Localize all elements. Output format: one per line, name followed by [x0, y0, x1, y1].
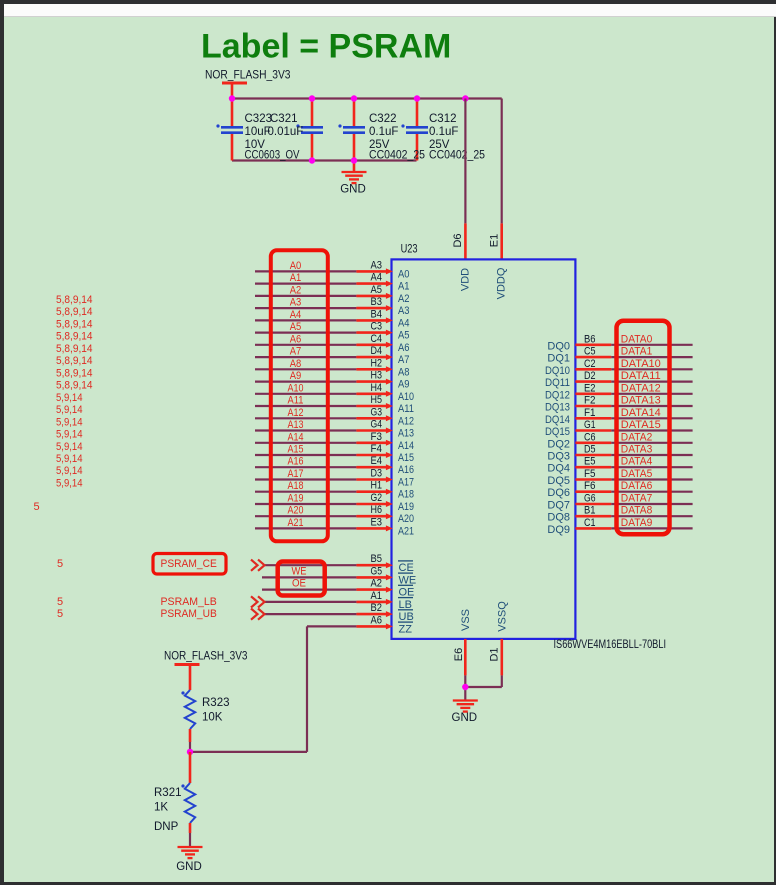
svg-text:DATA2: DATA2	[621, 431, 653, 443]
svg-text:5: 5	[57, 558, 63, 570]
svg-text:F1: F1	[584, 407, 596, 419]
svg-text:H5: H5	[371, 394, 383, 406]
svg-text:A11: A11	[398, 403, 414, 415]
svg-text:G4: G4	[371, 419, 383, 431]
svg-text:D6: D6	[452, 233, 464, 247]
svg-text:DATA3: DATA3	[621, 444, 653, 456]
svg-text:C323: C323	[245, 113, 273, 125]
svg-text:DQ13: DQ13	[545, 402, 570, 414]
svg-text:H2: H2	[371, 357, 383, 369]
svg-text:A4: A4	[290, 309, 302, 321]
svg-text:A7: A7	[398, 354, 410, 366]
svg-text:DATA10: DATA10	[621, 358, 661, 370]
svg-text:G3: G3	[371, 406, 383, 418]
svg-text:B2: B2	[371, 602, 383, 614]
svg-text:A5: A5	[398, 330, 410, 342]
svg-text:H1: H1	[371, 480, 383, 492]
svg-text:A0: A0	[290, 260, 302, 272]
svg-text:E4: E4	[371, 455, 383, 467]
svg-text:A1: A1	[371, 590, 383, 602]
svg-text:C322: C322	[369, 113, 397, 125]
svg-text:1K: 1K	[154, 802, 168, 814]
svg-text:5,8,9,14: 5,8,9,14	[56, 306, 93, 318]
svg-text:A5: A5	[290, 321, 302, 333]
svg-text:U23: U23	[401, 244, 418, 256]
svg-text:A9: A9	[290, 370, 302, 382]
svg-text:DNP: DNP	[154, 821, 179, 833]
svg-text:5,8,9,14: 5,8,9,14	[56, 318, 93, 330]
svg-text:A1: A1	[290, 272, 302, 284]
svg-text:A16: A16	[288, 456, 304, 468]
svg-text:DATA13: DATA13	[621, 395, 661, 407]
svg-text:B5: B5	[371, 553, 383, 565]
svg-text:A0: A0	[398, 268, 410, 280]
svg-text:PSRAM_CE: PSRAM_CE	[161, 558, 217, 570]
svg-text:UB: UB	[399, 611, 414, 623]
svg-text:G1: G1	[584, 419, 596, 431]
svg-text:5,9,14: 5,9,14	[56, 465, 83, 477]
svg-text:A3: A3	[371, 259, 383, 271]
svg-text:5,8,9,14: 5,8,9,14	[56, 294, 93, 306]
svg-text:A20: A20	[398, 513, 414, 525]
svg-text:E2: E2	[584, 382, 596, 394]
svg-text:0.1uF: 0.1uF	[369, 126, 398, 138]
svg-text:DATA14: DATA14	[621, 407, 661, 419]
svg-text:H4: H4	[371, 382, 383, 394]
svg-text:A18: A18	[398, 489, 414, 501]
svg-text:G2: G2	[371, 492, 383, 504]
svg-text:5,9,14: 5,9,14	[56, 453, 83, 465]
svg-text:5,9,14: 5,9,14	[56, 429, 83, 441]
svg-text:E1: E1	[488, 234, 500, 247]
svg-text:PSRAM_UB: PSRAM_UB	[161, 608, 217, 620]
svg-text:C3: C3	[371, 321, 383, 333]
svg-text:OE: OE	[399, 587, 415, 599]
svg-text:C5: C5	[584, 346, 596, 358]
svg-text:A13: A13	[288, 419, 304, 431]
svg-text:CC0402_25: CC0402_25	[369, 150, 425, 162]
svg-text:A12: A12	[398, 415, 414, 427]
svg-text:GND: GND	[340, 184, 366, 196]
svg-text:5,9,14: 5,9,14	[56, 416, 83, 428]
svg-text:5,8,9,14: 5,8,9,14	[56, 380, 93, 392]
svg-text:F5: F5	[584, 468, 596, 480]
svg-text:R323: R323	[202, 697, 230, 709]
svg-text:A7: A7	[290, 346, 302, 358]
svg-text:A12: A12	[288, 407, 304, 419]
svg-text:DATA6: DATA6	[621, 480, 653, 492]
svg-text:D3: D3	[371, 468, 383, 480]
svg-text:OE: OE	[292, 578, 306, 590]
svg-text:DATA8: DATA8	[621, 505, 653, 517]
svg-text:E3: E3	[371, 516, 383, 528]
svg-text:A9: A9	[398, 379, 410, 391]
svg-text:DATA0: DATA0	[621, 333, 653, 345]
svg-text:DQ2: DQ2	[547, 438, 570, 450]
svg-text:A14: A14	[398, 440, 414, 452]
svg-text:DATA7: DATA7	[621, 493, 653, 505]
svg-text:D1: D1	[489, 647, 501, 661]
svg-text:B6: B6	[584, 333, 596, 345]
svg-text:CC0402_25: CC0402_25	[429, 150, 485, 162]
svg-text:G5: G5	[371, 565, 383, 577]
svg-text:5,9,14: 5,9,14	[56, 404, 83, 416]
svg-text:GND: GND	[176, 861, 202, 873]
svg-text:DQ9: DQ9	[547, 524, 570, 536]
svg-text:DATA15: DATA15	[621, 419, 661, 431]
svg-text:A6: A6	[290, 333, 302, 345]
svg-text:DATA11: DATA11	[621, 370, 661, 382]
svg-text:5,9,14: 5,9,14	[56, 392, 83, 404]
svg-text:B4: B4	[371, 308, 383, 320]
svg-text:A19: A19	[288, 493, 304, 505]
svg-text:0.1uF: 0.1uF	[429, 126, 458, 138]
svg-text:R321: R321	[154, 787, 182, 799]
svg-text:WE: WE	[292, 565, 307, 577]
svg-text:A4: A4	[371, 272, 383, 284]
svg-text:D4: D4	[371, 345, 383, 357]
svg-text:CC0603_OV: CC0603_OV	[245, 150, 300, 162]
svg-text:WE: WE	[399, 574, 417, 586]
svg-text:B1: B1	[584, 505, 596, 517]
svg-text:5,8,9,14: 5,8,9,14	[56, 331, 93, 343]
svg-text:GND: GND	[452, 712, 478, 724]
svg-text:A19: A19	[398, 501, 414, 513]
svg-text:DQ5: DQ5	[547, 475, 570, 487]
svg-text:CE: CE	[399, 562, 414, 574]
svg-text:A21: A21	[398, 525, 414, 537]
svg-text:DQ11: DQ11	[545, 377, 570, 389]
svg-text:5: 5	[57, 596, 63, 608]
svg-text:E5: E5	[584, 456, 596, 468]
svg-text:Label = PSRAM: Label = PSRAM	[201, 28, 451, 66]
svg-text:5: 5	[57, 608, 63, 620]
svg-text:DQ10: DQ10	[545, 365, 570, 377]
svg-text:A14: A14	[288, 431, 304, 443]
svg-text:A15: A15	[398, 452, 414, 464]
svg-text:A13: A13	[398, 428, 414, 440]
svg-text:C4: C4	[371, 333, 383, 345]
svg-text:A21: A21	[288, 517, 304, 529]
svg-text:A2: A2	[398, 293, 410, 305]
svg-text:A1: A1	[398, 281, 410, 293]
svg-text:C2: C2	[584, 358, 596, 370]
svg-text:5,8,9,14: 5,8,9,14	[56, 355, 93, 367]
svg-text:NOR_FLASH_3V3: NOR_FLASH_3V3	[205, 70, 291, 82]
svg-text:A10: A10	[288, 382, 304, 394]
svg-text:A18: A18	[288, 480, 304, 492]
svg-text:DQ8: DQ8	[547, 512, 570, 524]
svg-text:C312: C312	[429, 113, 457, 125]
svg-text:G6: G6	[584, 493, 596, 505]
svg-text:DATA5: DATA5	[621, 468, 653, 480]
svg-text:10K: 10K	[202, 712, 223, 724]
svg-text:A6: A6	[398, 342, 410, 354]
svg-text:VDD: VDD	[460, 268, 472, 291]
svg-text:IS66WVE4M16EBLL-70BLI: IS66WVE4M16EBLL-70BLI	[554, 639, 667, 651]
svg-text:5,8,9,14: 5,8,9,14	[56, 367, 93, 379]
svg-text:DQ14: DQ14	[545, 414, 570, 426]
svg-text:F4: F4	[371, 443, 383, 455]
svg-text:F2: F2	[584, 395, 596, 407]
svg-text:DQ4: DQ4	[547, 463, 570, 475]
svg-text:DQ12: DQ12	[545, 389, 570, 401]
svg-text:D2: D2	[584, 370, 596, 382]
svg-text:DQ6: DQ6	[547, 487, 570, 499]
svg-text:VSSQ: VSSQ	[496, 601, 508, 632]
svg-text:DATA9: DATA9	[621, 517, 653, 529]
svg-text:A15: A15	[288, 444, 304, 456]
svg-text:A4: A4	[398, 317, 410, 329]
svg-text:E6: E6	[453, 648, 465, 661]
svg-text:C321: C321	[270, 113, 298, 125]
svg-text:A6: A6	[371, 614, 383, 626]
svg-text:C1: C1	[584, 517, 596, 529]
svg-text:ZZ: ZZ	[399, 623, 413, 635]
svg-text:VSS: VSS	[460, 609, 472, 631]
svg-text:PSRAM_LB: PSRAM_LB	[161, 596, 217, 608]
svg-text:DQ0: DQ0	[547, 340, 570, 352]
svg-text:B3: B3	[371, 296, 383, 308]
svg-text:C6: C6	[584, 431, 596, 443]
svg-text:DATA4: DATA4	[621, 456, 653, 468]
svg-text:DQ15: DQ15	[545, 426, 570, 438]
svg-text:A5: A5	[371, 284, 383, 296]
svg-text:5,9,14: 5,9,14	[56, 478, 83, 490]
svg-text:NOR_FLASH_3V3: NOR_FLASH_3V3	[164, 651, 248, 663]
svg-text:F6: F6	[584, 480, 596, 492]
svg-text:A17: A17	[398, 477, 414, 489]
svg-text:H6: H6	[371, 504, 383, 516]
svg-text:DQ1: DQ1	[547, 353, 570, 365]
svg-text:A11: A11	[288, 395, 304, 407]
svg-text:A8: A8	[290, 358, 302, 370]
svg-text:DATA1: DATA1	[621, 346, 653, 358]
svg-text:A10: A10	[398, 391, 414, 403]
svg-text:5,9,14: 5,9,14	[56, 441, 83, 453]
svg-text:DQ7: DQ7	[547, 500, 570, 512]
svg-text:A16: A16	[398, 464, 414, 476]
svg-text:5,8,9,14: 5,8,9,14	[56, 343, 93, 355]
svg-text:A17: A17	[288, 468, 304, 480]
svg-text:A2: A2	[290, 284, 302, 296]
svg-text:A2: A2	[371, 578, 383, 590]
svg-text:A20: A20	[288, 505, 304, 517]
svg-text:F3: F3	[371, 431, 383, 443]
svg-text:DATA12: DATA12	[621, 382, 661, 394]
svg-text:5: 5	[34, 501, 40, 513]
svg-text:LB: LB	[399, 599, 412, 611]
svg-text:0.01uF: 0.01uF	[268, 126, 304, 138]
svg-text:DQ3: DQ3	[547, 451, 570, 463]
svg-text:A8: A8	[398, 366, 410, 378]
svg-text:VDDQ: VDDQ	[496, 267, 508, 299]
svg-text:A3: A3	[398, 305, 410, 317]
svg-text:D5: D5	[584, 444, 596, 456]
svg-text:A3: A3	[290, 297, 302, 309]
svg-text:H3: H3	[371, 370, 383, 382]
